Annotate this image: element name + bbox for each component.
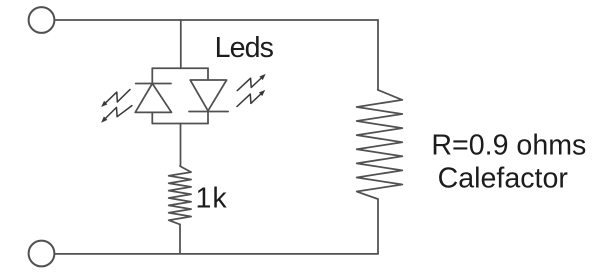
svg-text:Leds: Leds [215,32,274,64]
wire LED box bottom rail [152,123,208,125]
resistor R=0.9 ohms calefactor [357,90,403,199]
LED D2 cathode bar [189,111,228,113]
wire LED D2 to bottom rail [207,112,209,124]
resistor R1k [169,166,191,224]
LED D1 triangle (pointing up) [135,84,171,113]
wire LED D1 to bottom rail [151,112,153,123]
terminal J2 (bottom-left) [29,241,55,267]
LED D1 cathode bar [136,83,171,85]
wire right LED drop [207,68,209,80]
light arrow 2 of D2 [237,90,265,107]
light arrow 2 of D1 [101,106,132,123]
light arrow 1 of D2 (pointing up-right) [237,74,265,91]
svg-text:1k: 1k [196,182,228,214]
wire right branch bottom [377,199,379,254]
svg-text:R=0.9 ohms: R=0.9 ohms [431,130,586,162]
wire bottom rail [54,253,378,255]
wire left LED drop [151,68,153,83]
wire right branch top [377,20,379,90]
light arrow 1 of D1 (pointing down-left) [101,90,130,108]
LED D2 triangle (pointing down) [190,80,226,111]
svg-text:Calefactor: Calefactor [438,163,569,195]
wire top rail [54,19,378,21]
wire middle branch top [180,20,182,68]
wire 1k to bottom rail [179,224,181,253]
wire LED box top rail [152,67,208,69]
terminal J1 (top-left) [29,7,55,33]
wire middle stem [180,124,182,167]
